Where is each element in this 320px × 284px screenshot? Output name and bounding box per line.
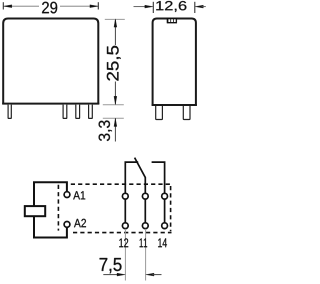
coil wire top: from coil up and right to terminal A1	[34, 182, 67, 206]
pin A (end view left)	[156, 106, 163, 120]
mechanical linkage dashed box left	[57, 185, 59, 231]
extension line at pin bottom (for 3,3)	[103, 117, 124, 119]
extension line at body bottom (for 25,5 / 3,3)	[103, 104, 124, 106]
mechanical linkage dashed box top	[71, 183, 171, 185]
dimension text 12,6	[156, 1, 186, 12]
pin 1 (side view far left)	[8, 105, 11, 119]
terminal circle bottom 11	[142, 223, 148, 229]
pin 2 (side view)	[63, 105, 67, 119]
dimension 25,5 arrow bottom (points down)	[114, 96, 117, 104]
dimension 29 extension tick right	[97, 2, 99, 9]
wire 11 between circles	[144, 199, 146, 223]
terminal circle bottom 14	[162, 223, 168, 229]
dimension 29 line right segment	[60, 5, 98, 7]
dimension 7,5 line right segment	[152, 274, 161, 276]
dimension text 29	[42, 2, 57, 14]
dimension 12,6 extension tick left	[152, 2, 154, 13]
coil K1 rectangle	[25, 206, 45, 216]
pin 3 (side view)	[76, 105, 80, 119]
dimension 7,5 arrow left (points right)	[117, 273, 125, 276]
dimension 7,5 line left segment	[103, 274, 118, 276]
contact 12 fixed bar and wire	[125, 162, 138, 193]
wire 12 between circles	[124, 199, 126, 223]
dimension 25,5 line	[114, 20, 116, 104]
terminal circle top 11	[142, 193, 148, 199]
terminal circle top 12	[122, 193, 128, 199]
extension line from pin 11 down (7,5 dimension)	[145, 229, 147, 281]
dimension 12,6 line right segment	[202, 6, 206, 8]
extension line from pin 12 down (7,5 dimension)	[124, 229, 126, 281]
coil wire bottom: from coil down, right to below terminal A2	[34, 216, 67, 238]
dimension 12,6 extension tick right	[194, 2, 196, 13]
dimension text 7,5	[100, 258, 122, 273]
label 14	[158, 238, 167, 247]
label 12	[119, 238, 128, 247]
relay body bottom edge (side view)	[2, 103, 99, 105]
relay body end view (12.6 mm)	[153, 19, 196, 106]
dimension 29 extension tick left	[2, 2, 4, 9]
terminal circle bottom 12	[122, 223, 128, 229]
label A1	[73, 191, 85, 199]
dimension 3,3 arrow (points up)	[114, 118, 117, 126]
dimension 12,6 arrow right (points left)	[195, 5, 203, 8]
dimension 29 line left segment	[4, 5, 39, 7]
dimension text 25,5 (rotated, white halo breaks the line)	[107, 45, 122, 82]
dimension 12,6 line left segment	[134, 6, 147, 8]
dimension 29 arrow right	[90, 5, 98, 8]
dimension text 3,3 (rotated)	[99, 120, 112, 141]
dimension 29 arrow left	[4, 5, 12, 8]
label A2	[74, 219, 86, 227]
contact 14 fixed bar and wire	[152, 162, 165, 193]
extension line top (for 25,5)	[105, 18, 125, 20]
terminal circle top 14	[162, 193, 168, 199]
terminal A2 circle	[64, 222, 70, 228]
terminal A1 circle	[64, 192, 70, 198]
dimension 3,3 line below	[114, 118, 116, 141]
label 11	[140, 238, 147, 247]
dimension 25,5 arrow top (points up)	[114, 19, 117, 27]
relay body bottom edge (end view)	[152, 104, 197, 106]
vent slots block on top of end view	[167, 18, 177, 23]
mechanical linkage dashed box right	[170, 186, 172, 231]
pin 4 (side view)	[89, 105, 93, 119]
pin B (end view right)	[183, 106, 190, 120]
mechanical linkage dashed box bottom	[73, 232, 172, 234]
dimension 12,6 arrow left (points right)	[145, 5, 153, 8]
dimension 7,5 arrow right (points left)	[146, 273, 154, 276]
wire 14 between circles	[164, 199, 166, 223]
contact lever (common 11, closed toward 12)	[135, 158, 146, 194]
relay body side view (29 mm)	[3, 19, 98, 105]
